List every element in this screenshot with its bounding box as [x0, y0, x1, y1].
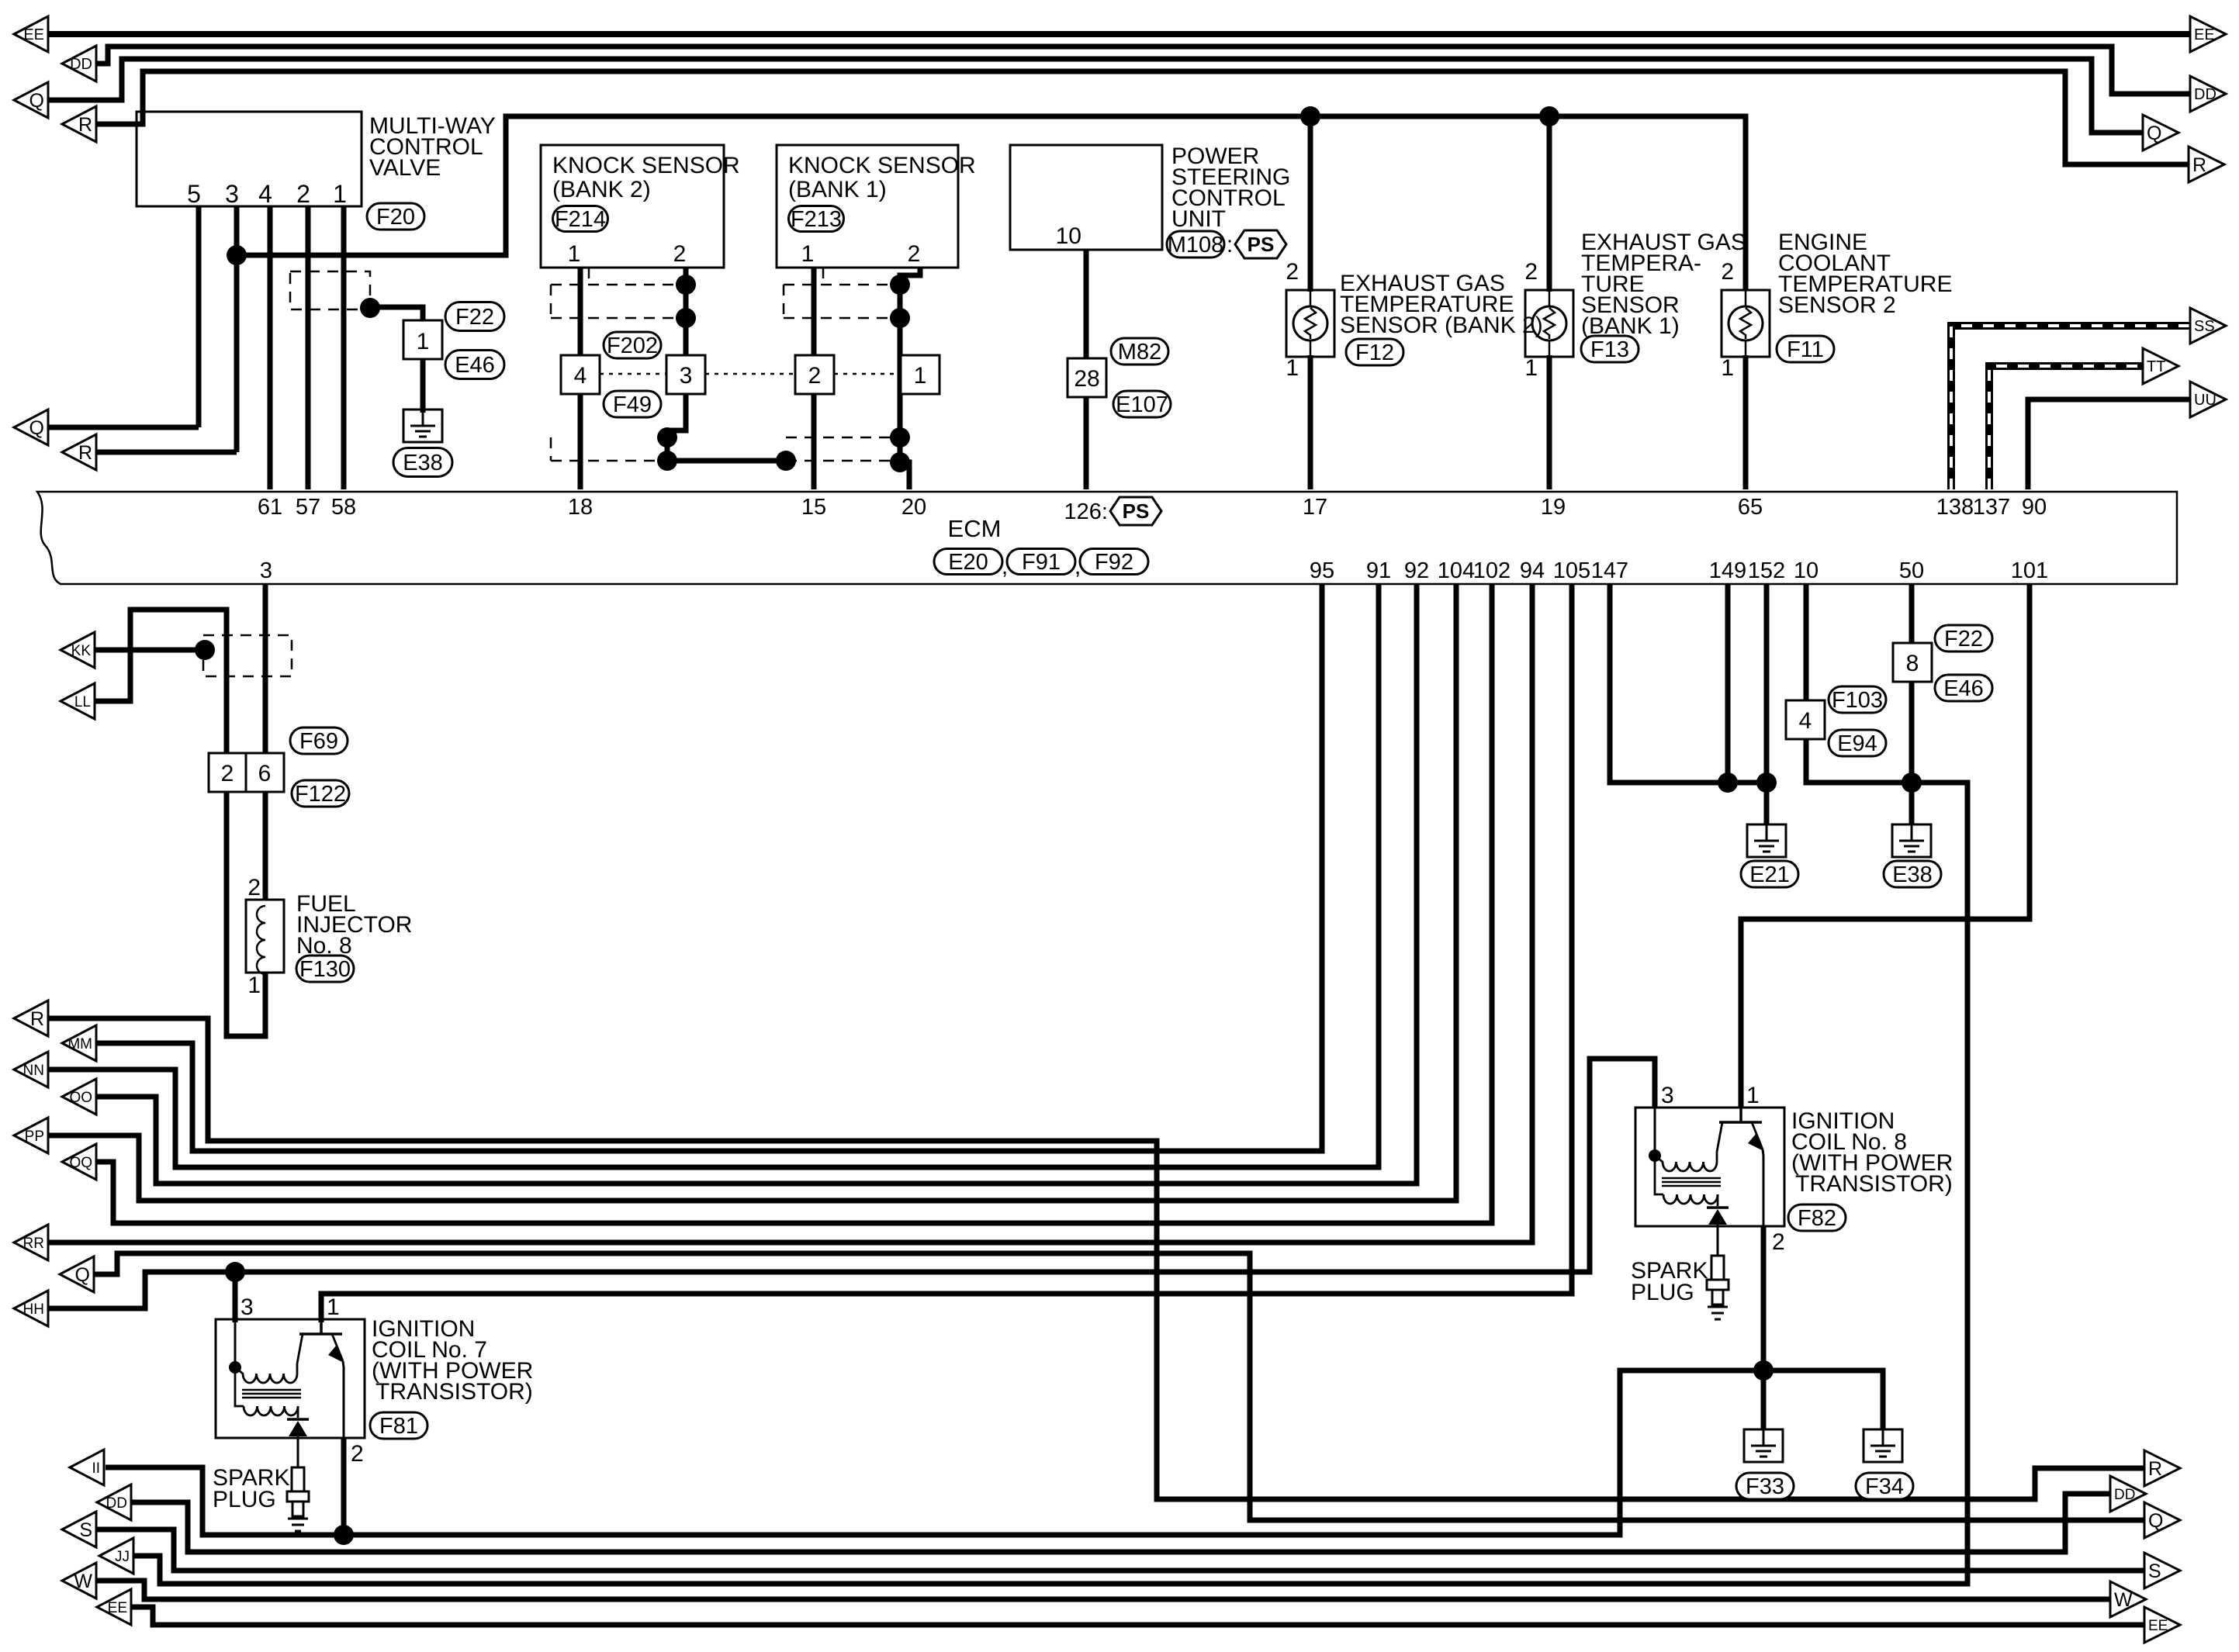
svg-text:E21: E21: [1749, 862, 1790, 887]
svg-text:F12: F12: [1355, 340, 1394, 365]
svg-text:3: 3: [225, 180, 239, 208]
svg-text:1: 1: [568, 241, 581, 267]
svg-text:E46: E46: [1943, 676, 1984, 701]
svg-text:NN: NN: [23, 1063, 44, 1079]
svg-text:F69: F69: [299, 729, 338, 754]
svg-text:28: 28: [1074, 366, 1099, 392]
svg-text:F34: F34: [1865, 1474, 1904, 1499]
svg-text:61: 61: [258, 495, 282, 520]
svg-text:F130: F130: [299, 957, 351, 982]
svg-text:Q: Q: [2147, 123, 2161, 144]
svg-text:Q: Q: [29, 417, 44, 439]
svg-text:SENSOR (BANK 2): SENSOR (BANK 2): [1340, 313, 1543, 338]
svg-text:F81: F81: [379, 1414, 418, 1439]
svg-text:10: 10: [1794, 558, 1819, 583]
svg-text:PS: PS: [1123, 499, 1150, 523]
svg-text:4: 4: [574, 363, 587, 389]
svg-text:EE: EE: [2194, 26, 2215, 43]
svg-text:KNOCK SENSOR: KNOCK SENSOR: [788, 153, 976, 178]
svg-text:1: 1: [327, 1294, 340, 1320]
svg-text:SENSOR 2: SENSOR 2: [1778, 292, 1896, 318]
svg-text:F33: F33: [1746, 1474, 1784, 1499]
svg-text:E38: E38: [403, 451, 443, 475]
svg-text:R: R: [30, 1008, 44, 1030]
svg-text:19: 19: [1541, 495, 1566, 520]
svg-text:1: 1: [1524, 355, 1538, 381]
svg-text:Q: Q: [2148, 1510, 2163, 1532]
svg-text:TRANSISTOR): TRANSISTOR): [1795, 1171, 1953, 1197]
svg-text:8: 8: [1906, 651, 1919, 676]
svg-text:1: 1: [914, 363, 927, 389]
svg-text:F103: F103: [1832, 688, 1883, 713]
svg-text:10: 10: [1056, 223, 1081, 249]
svg-text:(BANK 1): (BANK 1): [788, 177, 887, 202]
svg-text:ECM: ECM: [948, 515, 1002, 542]
svg-text:MM: MM: [67, 1036, 92, 1052]
svg-text:TRANSISTOR): TRANSISTOR): [375, 1379, 533, 1405]
svg-text:95: 95: [1310, 558, 1334, 583]
svg-text:90: 90: [2022, 495, 2047, 520]
svg-text:PLUG: PLUG: [1631, 1280, 1694, 1305]
svg-text:R: R: [2148, 1458, 2162, 1480]
svg-text:R: R: [78, 442, 92, 464]
svg-text:18: 18: [568, 495, 593, 520]
svg-text:3: 3: [680, 363, 693, 389]
svg-text:R: R: [78, 114, 92, 136]
svg-text:20: 20: [901, 495, 926, 520]
svg-text:58: 58: [331, 495, 356, 520]
svg-text:DD: DD: [70, 56, 92, 73]
svg-text:KK: KK: [71, 643, 92, 659]
svg-text:149: 149: [1709, 558, 1746, 583]
svg-text:2: 2: [1721, 259, 1734, 285]
svg-text:138: 138: [1936, 495, 1974, 520]
svg-text:17: 17: [1303, 495, 1327, 520]
svg-text:1: 1: [333, 180, 347, 208]
svg-text:E46: E46: [455, 353, 495, 378]
svg-text:102: 102: [1473, 558, 1511, 583]
svg-text:57: 57: [296, 495, 320, 520]
svg-text:Q: Q: [29, 90, 44, 112]
svg-text:LL: LL: [74, 694, 91, 710]
svg-text:RR: RR: [23, 1236, 44, 1252]
svg-text:3: 3: [260, 558, 272, 583]
svg-text:1: 1: [1746, 1083, 1760, 1108]
svg-text:2: 2: [351, 1441, 364, 1467]
svg-text:OO: OO: [69, 1090, 92, 1106]
svg-text:UNIT: UNIT: [1171, 206, 1226, 232]
svg-text:E38: E38: [1892, 862, 1933, 887]
svg-text:Q: Q: [75, 1264, 90, 1286]
svg-text:M82: M82: [1118, 340, 1161, 365]
svg-text:DD: DD: [2194, 86, 2217, 103]
svg-text:DD: DD: [106, 1495, 127, 1512]
svg-text:JJ: JJ: [115, 1549, 130, 1565]
svg-text:W: W: [2114, 1589, 2133, 1611]
svg-text:1: 1: [1286, 355, 1299, 381]
svg-text:S: S: [79, 1519, 92, 1541]
svg-text:II: II: [92, 1460, 100, 1477]
svg-text:1: 1: [417, 329, 430, 354]
svg-text:3: 3: [241, 1294, 254, 1320]
svg-text:1: 1: [247, 973, 261, 998]
svg-text:2: 2: [673, 241, 687, 267]
svg-text:137: 137: [1973, 495, 2010, 520]
svg-text:F202: F202: [607, 334, 658, 358]
svg-text:1: 1: [1721, 355, 1734, 381]
svg-text:2: 2: [221, 761, 234, 786]
svg-text:F91: F91: [1022, 550, 1061, 575]
svg-text:2: 2: [1772, 1229, 1785, 1255]
svg-text:4: 4: [258, 180, 272, 208]
svg-text:F20: F20: [376, 205, 415, 230]
svg-text:KNOCK SENSOR: KNOCK SENSOR: [552, 153, 740, 178]
svg-text:1: 1: [801, 241, 815, 267]
svg-text:4: 4: [1799, 708, 1812, 734]
svg-text:PS: PS: [1248, 233, 1275, 256]
svg-text:6: 6: [258, 761, 272, 786]
svg-text:15: 15: [801, 495, 826, 520]
svg-text:QQ: QQ: [69, 1155, 92, 1171]
svg-text:TT: TT: [2147, 358, 2165, 375]
svg-text:92: 92: [1404, 558, 1429, 583]
svg-text::: :: [1227, 232, 1233, 257]
svg-text:F214: F214: [555, 207, 606, 232]
svg-text:94: 94: [1520, 558, 1545, 583]
svg-text:50: 50: [1899, 558, 1924, 583]
svg-text:65: 65: [1738, 495, 1763, 520]
svg-text:F13: F13: [1590, 337, 1629, 362]
svg-text:PLUG: PLUG: [213, 1487, 276, 1512]
svg-text:105: 105: [1553, 558, 1590, 583]
svg-text:F92: F92: [1095, 550, 1133, 575]
svg-text:UU: UU: [2194, 392, 2217, 409]
svg-text:EE: EE: [108, 1600, 127, 1616]
svg-text:152: 152: [1748, 558, 1785, 583]
svg-text:PP: PP: [25, 1128, 44, 1145]
svg-text:5: 5: [187, 180, 201, 208]
svg-text:VALVE: VALVE: [369, 155, 441, 181]
svg-text:S: S: [2148, 1560, 2161, 1582]
svg-text:126:: 126:: [1064, 499, 1108, 524]
svg-text:2: 2: [1286, 259, 1299, 285]
svg-text:101: 101: [2011, 558, 2048, 583]
svg-text:E20: E20: [948, 550, 988, 575]
svg-text:F82: F82: [1798, 1206, 1836, 1231]
svg-text:2: 2: [1524, 259, 1538, 285]
svg-text:F11: F11: [1787, 337, 1824, 362]
svg-text:2: 2: [808, 363, 822, 389]
svg-text:2: 2: [247, 875, 261, 900]
svg-text:EE: EE: [2148, 1618, 2168, 1634]
svg-text:E94: E94: [1837, 731, 1877, 756]
svg-text:R: R: [2192, 154, 2206, 176]
svg-text:DD: DD: [2114, 1487, 2135, 1503]
svg-text:147: 147: [1591, 558, 1628, 583]
svg-text:EE: EE: [23, 26, 44, 43]
svg-text:F213: F213: [791, 207, 842, 232]
svg-text:F22: F22: [1944, 627, 1983, 651]
svg-text:E107: E107: [1116, 392, 1168, 417]
svg-text:F22: F22: [455, 305, 494, 330]
svg-text:M108: M108: [1168, 233, 1224, 257]
svg-text:(BANK 2): (BANK 2): [552, 177, 651, 202]
svg-text:2: 2: [296, 180, 310, 208]
svg-text:HH: HH: [23, 1301, 44, 1318]
svg-text:104: 104: [1438, 558, 1475, 583]
svg-text:3: 3: [1661, 1083, 1674, 1108]
svg-text:F122: F122: [295, 782, 346, 807]
svg-text:F49: F49: [613, 392, 652, 417]
svg-text:2: 2: [908, 241, 921, 267]
svg-text:W: W: [74, 1571, 92, 1592]
svg-text:91: 91: [1366, 558, 1391, 583]
svg-text:SS: SS: [2194, 318, 2215, 335]
